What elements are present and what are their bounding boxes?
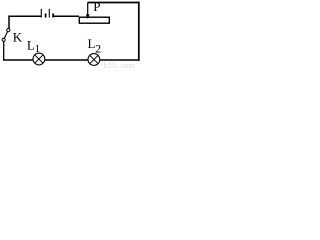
battery B1 tall plate 2 [48,9,50,18]
lamp L2 cross [90,55,98,63]
lamp L1 circle [33,53,45,65]
wire bottom-left vertical up to switch [3,41,5,60]
slider arrowhead [86,14,90,19]
wire bottom from right corner to lamp L2 [100,59,140,61]
battery B1 short plate 2 [52,13,54,17]
wire between lamps [45,59,88,61]
battery B1 tall plate 1 [40,9,42,18]
svg-text:1: 1 [35,43,41,55]
wire right side vertical [138,2,140,61]
svg-text:b15. com: b15. com [104,60,136,69]
switch K lower contact circle [2,38,5,41]
wire switch up to top-left corner [8,16,10,29]
rheostat box P [79,17,109,23]
slider arrow shaft [87,3,89,15]
wire lamp L1 to bottom-left corner [3,59,33,61]
lamp L1 cross [35,55,43,63]
switch K upper contact circle [7,29,10,32]
wire top-left horizontal from corner to battery [9,15,42,17]
lamp L2 circle [88,54,100,66]
wire slider to top-right corner [88,2,140,4]
wire battery to rheostat box [54,15,80,17]
switch K blade [4,32,7,39]
svg-text:K: K [13,30,23,45]
battery B1 short plate 1 [45,13,47,17]
svg-text:2: 2 [95,41,101,55]
